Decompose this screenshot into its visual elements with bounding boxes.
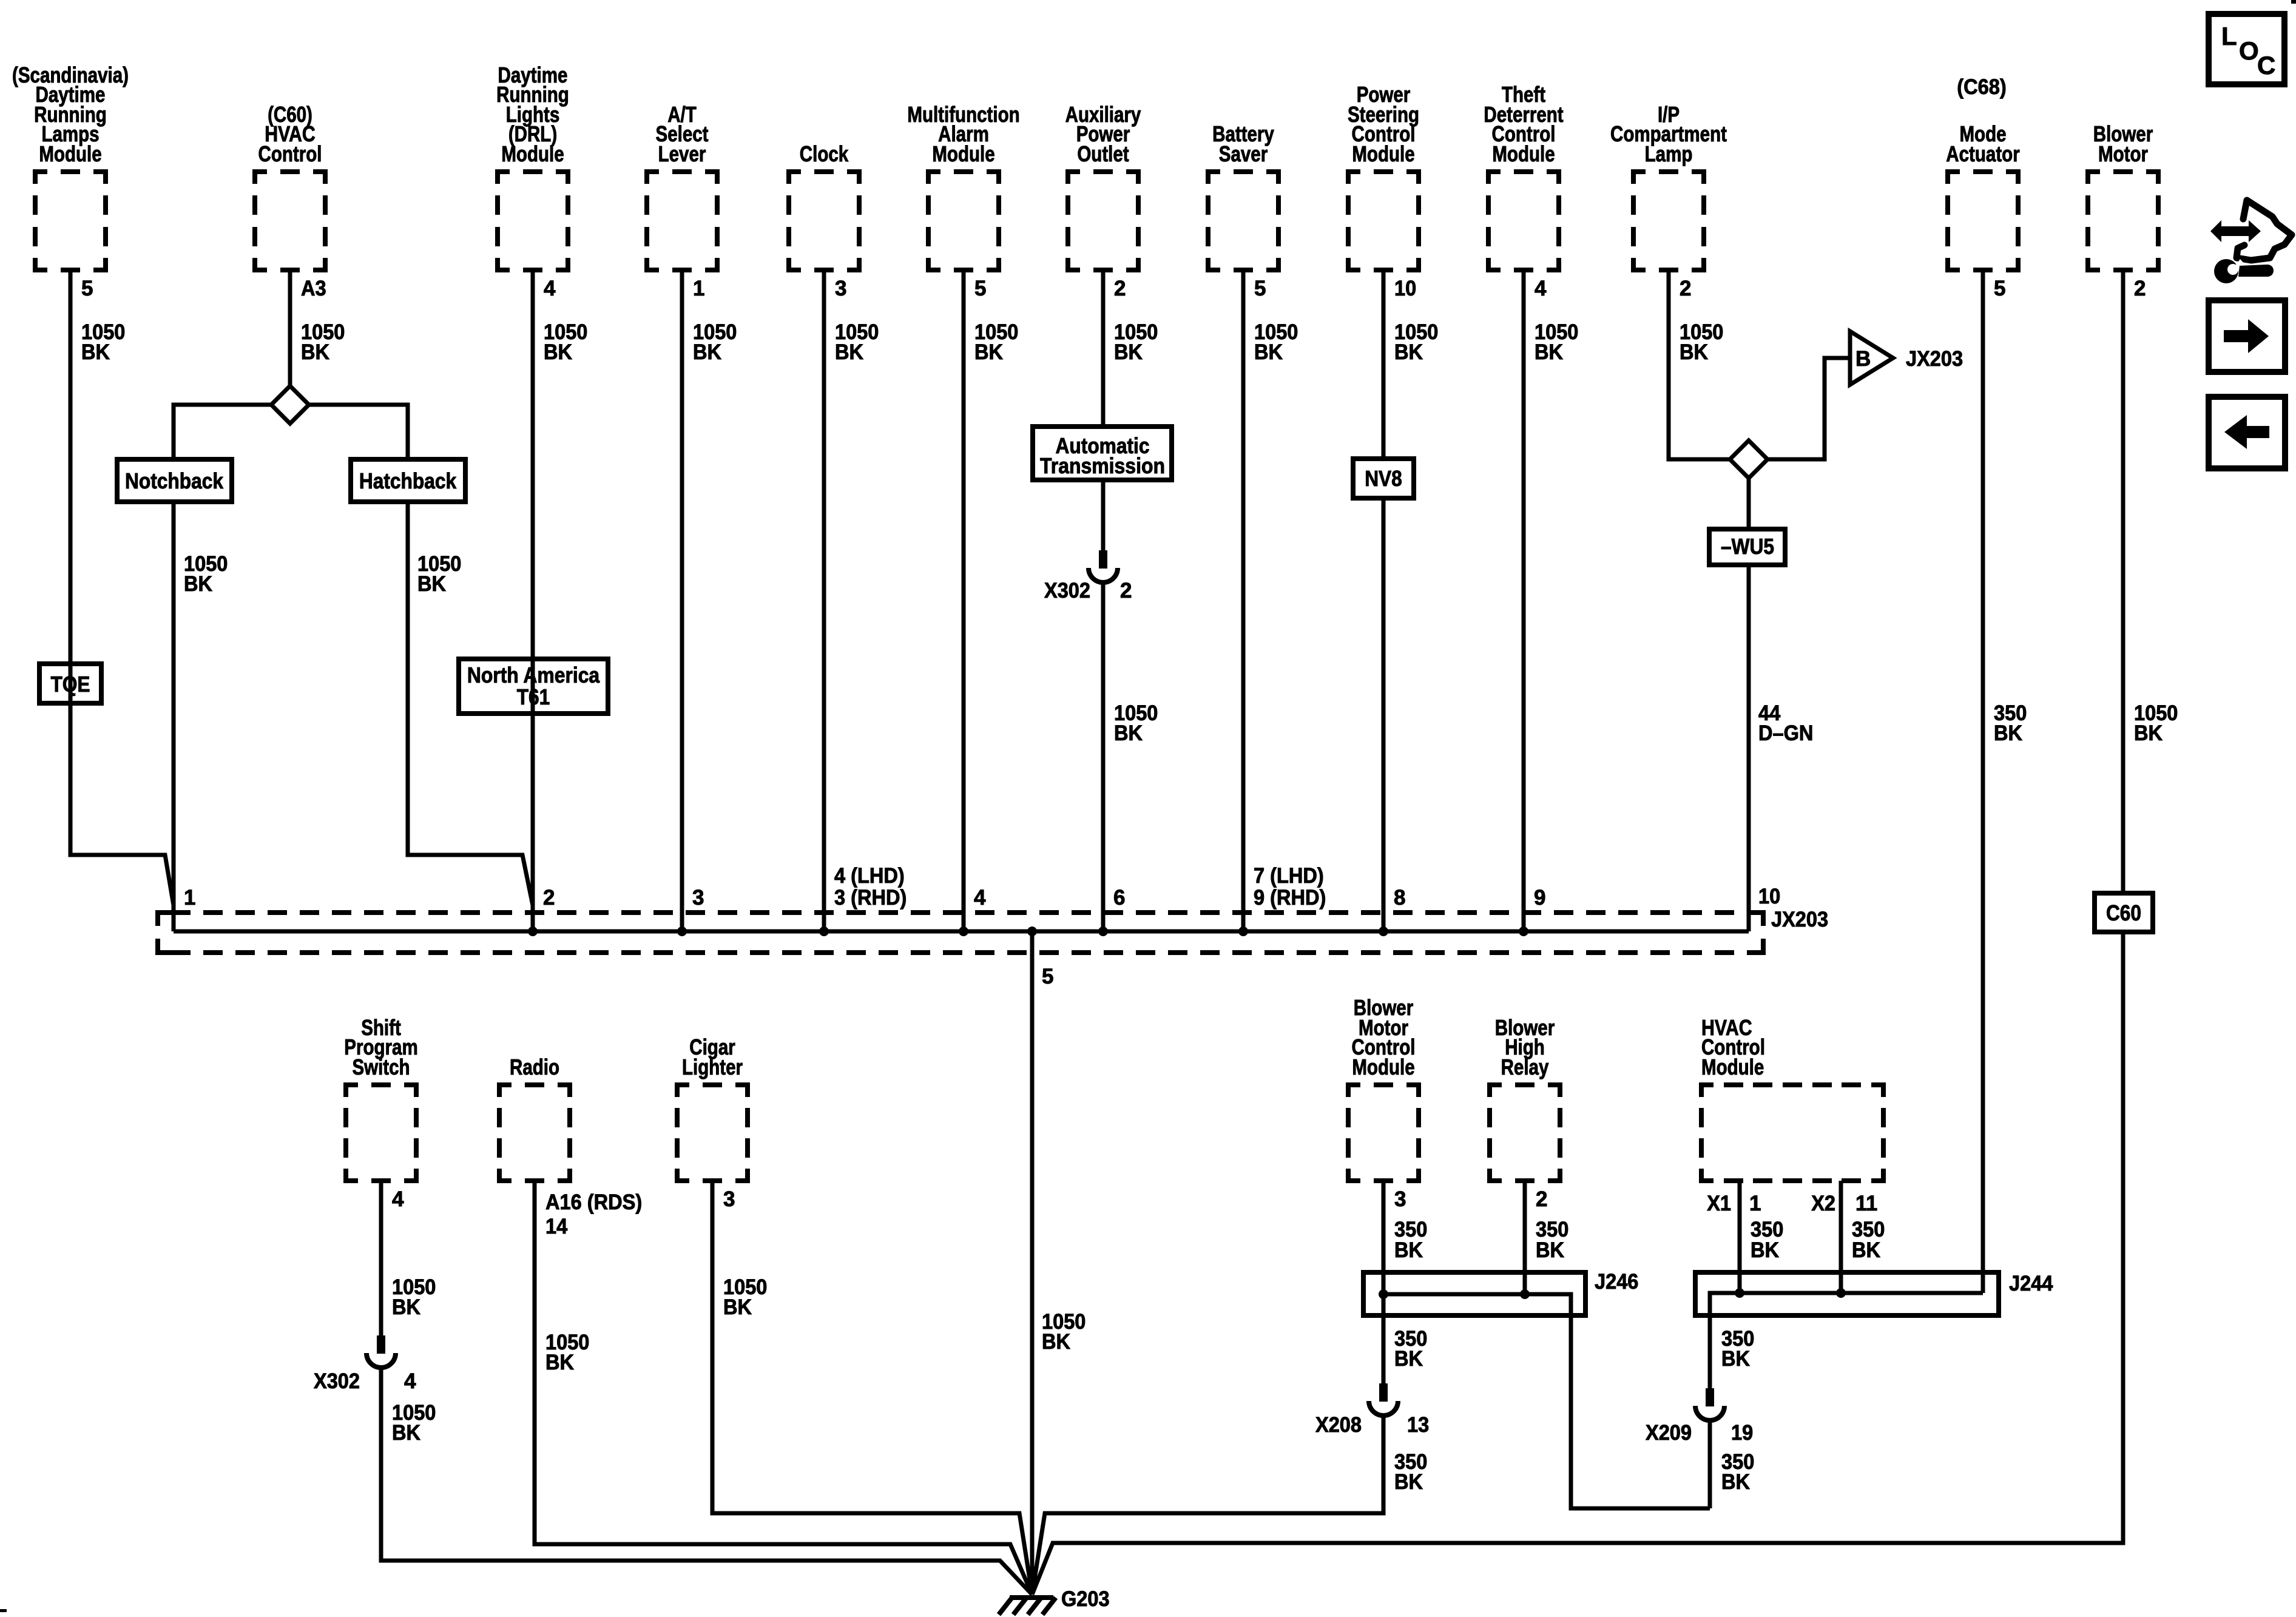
legend box L O C (2209, 14, 2284, 84)
svg-text:Switch: Switch (352, 1055, 410, 1079)
wire Shift Program Switch pin 4, 1050 BK (381, 1181, 436, 1335)
svg-text:O: O (2239, 36, 2259, 65)
svg-text:Module: Module (39, 141, 101, 166)
svg-text:JX203: JX203 (1771, 908, 1828, 931)
svg-text:BK: BK (1536, 1238, 1564, 1262)
module Blower High Relay (1490, 1015, 1560, 1181)
wire Blower High Relay pin 2, 350 BK (1525, 1181, 1568, 1294)
module Auxiliary Power Outlet (1065, 102, 1141, 270)
svg-text:X208: X208 (1315, 1413, 1362, 1437)
svg-text:4: 4 (392, 1187, 404, 1211)
node J244 X1 (1735, 1288, 1744, 1298)
svg-text:6: 6 (1113, 886, 1125, 910)
module Shift Program Switch (344, 1015, 417, 1181)
svg-text:BK: BK (1114, 340, 1143, 364)
svg-text:3: 3 (723, 1187, 735, 1211)
option box TQE (39, 664, 101, 703)
svg-text:Actuator: Actuator (1946, 141, 2019, 166)
svg-text:Relay: Relay (1501, 1055, 1549, 1079)
svg-text:Module: Module (1352, 141, 1414, 166)
svg-text:8: 8 (1394, 886, 1405, 910)
module Blower Motor Control Module (1348, 995, 1419, 1181)
svg-text:JX203: JX203 (1906, 347, 1963, 371)
wire Battery Saver pin 5, 1050 BK (1243, 270, 1298, 931)
option box -WU5 (1709, 529, 1785, 565)
wire I/P Compartment Lamp pin 2, 1050 BK (1669, 270, 1730, 459)
svg-text:2: 2 (543, 886, 555, 910)
svg-text:C: C (2257, 51, 2275, 79)
svg-text:BK: BK (1721, 1347, 1750, 1371)
node JX203 pin 7 (LHD) 9 (RHD) (1238, 864, 1326, 936)
svg-text:1: 1 (693, 277, 704, 300)
svg-text:BK: BK (1394, 1347, 1423, 1371)
node JX203 pin 8 (1379, 886, 1405, 936)
svg-text:BK: BK (2134, 721, 2163, 745)
svg-text:X1: X1 (1707, 1192, 1731, 1215)
inline connector X302 pin 4 (lower) (314, 1335, 416, 1393)
svg-text:1: 1 (184, 886, 195, 910)
svg-text:2: 2 (1114, 277, 1126, 300)
option box North America T61 (459, 659, 608, 714)
option box Notchback (117, 459, 232, 502)
svg-text:BK: BK (1394, 340, 1423, 364)
wire Multifunction Alarm Module pin 5, 1050 BK (964, 270, 1018, 931)
wire diamond to Notchback branch (174, 405, 271, 459)
node JX203 pin 4 (959, 886, 986, 936)
svg-text:T61: T61 (517, 684, 550, 709)
wire diamond to Hatchback branch (309, 405, 408, 459)
wire DRL Module pin 4, 1050 BK (533, 270, 587, 931)
svg-text:A3: A3 (301, 277, 326, 300)
wire JX203 pin 5 to ground G203 (1030, 931, 1035, 1595)
module Blower Motor (2088, 121, 2158, 270)
svg-text:BK: BK (1721, 1470, 1750, 1494)
svg-text:10: 10 (1394, 277, 1416, 300)
svg-text:X209: X209 (1646, 1421, 1692, 1445)
svg-text:Lever: Lever (658, 141, 706, 166)
svg-text:(C68): (C68) (1957, 75, 2006, 99)
svg-text:3: 3 (1394, 1187, 1406, 1211)
svg-text:Control: Control (258, 141, 322, 166)
svg-text:C60: C60 (2106, 900, 2141, 925)
svg-text:2: 2 (1536, 1187, 1547, 1211)
wire Power Steering Control Module pin 10, 1050 BK (1383, 270, 1438, 459)
svg-text:BK: BK (1852, 1238, 1880, 1262)
svg-text:BK: BK (1394, 1238, 1423, 1262)
module Clock (789, 141, 859, 270)
svg-text:Module: Module (1352, 1055, 1414, 1079)
svg-text:3: 3 (835, 277, 846, 300)
wire Mode Actuator pin 5 to J244, 350 BK (1983, 270, 2027, 1293)
option box Hatchback (351, 459, 465, 502)
wire J246 to X208, 350 BK (1383, 1294, 1427, 1383)
wire J246 internal bus (1383, 1294, 1710, 1508)
wire Auxiliary Power Outlet pin 2, 1050 BK (1103, 270, 1158, 427)
svg-text:9 (RHD): 9 (RHD) (1254, 886, 1326, 910)
svg-text:4: 4 (544, 277, 556, 300)
node J246 blower motor control (1379, 1289, 1388, 1299)
wire X302 to JX203 pin 6, 1050 BK (1103, 582, 1158, 931)
wire NV8 to JX203 pin 8 (1382, 498, 1386, 931)
svg-text:Transmission: Transmission (1040, 453, 1165, 478)
svg-text:1: 1 (1749, 1192, 1761, 1215)
module A/T Select Lever (647, 102, 717, 270)
svg-text:A16 (RDS): A16 (RDS) (545, 1190, 642, 1214)
icon arrow right (next page) (2209, 300, 2285, 372)
svg-text:BK: BK (184, 572, 212, 596)
svg-text:BK: BK (81, 340, 110, 364)
ground G203 (999, 1587, 1110, 1615)
svg-text:BK: BK (1535, 340, 1563, 364)
node JX203 pin 2 (528, 886, 555, 936)
svg-text:2: 2 (1120, 579, 1132, 603)
node JX203 pin 6 (1098, 886, 1125, 936)
wire diamond to connector B JX203 (1768, 358, 1850, 459)
svg-text:BK: BK (835, 340, 863, 364)
svg-text:3 (RHD): 3 (RHD) (834, 886, 907, 910)
wire Theft Deterrent Control Module pin 4, 1050 BK (1524, 270, 1578, 931)
svg-text:Radio: Radio (510, 1055, 559, 1079)
svg-text:Module: Module (1492, 141, 1555, 166)
svg-text:4: 4 (1535, 277, 1547, 300)
svg-text:10: 10 (1758, 885, 1780, 908)
svg-text:BK: BK (392, 1421, 420, 1445)
svg-text:3: 3 (692, 886, 704, 910)
wire J244 to X209 350 BK label (1721, 1327, 1754, 1371)
svg-text:Outlet: Outlet (1077, 141, 1129, 166)
svg-text:BK: BK (1042, 1330, 1070, 1354)
wire JX203 internal bus (174, 930, 1749, 934)
wire J244 internal bus (1710, 1293, 1983, 1388)
wire HVAC Control pin A3, 1050 BK (290, 270, 345, 386)
wire Hatchback to junction 2, 1050 BK (408, 502, 533, 905)
svg-text:J246: J246 (1595, 1270, 1638, 1294)
wire JX203 pin 5 mid label 1050 BK (1042, 1310, 1086, 1354)
node JX203 pin 4 (LHD) 3 (RHD) (819, 864, 907, 936)
icon adjust tool (hand with double arrow and wrench) (2210, 200, 2292, 283)
svg-text:Clock: Clock (800, 141, 849, 166)
svg-text:D–GN: D–GN (1758, 721, 1813, 745)
svg-text:X302: X302 (1044, 579, 1090, 603)
svg-text:4 (LHD): 4 (LHD) (834, 864, 905, 888)
module Daytime Running Lamps Module (Scandinavia) (12, 62, 129, 270)
module Battery Saver (1208, 121, 1278, 270)
svg-text:2: 2 (1680, 277, 1691, 300)
svg-text:2: 2 (2134, 277, 2146, 300)
svg-text:11: 11 (1855, 1192, 1877, 1215)
wire Cigar Lighter pin 3, 1050 BK (712, 1181, 1032, 1595)
svg-text:–WU5: –WU5 (1721, 534, 1774, 559)
splice diamond under HVAC Control (271, 386, 309, 424)
svg-text:BK: BK (1394, 1470, 1423, 1494)
icon arrow left (previous page) (2209, 397, 2285, 468)
module I/P Compartment Lamp (1610, 102, 1727, 270)
connector triangle B JX203 (1850, 331, 1963, 385)
svg-text:NV8: NV8 (1365, 466, 1402, 491)
wire HVAC Control Module X2 pin 11, 350 BK (1811, 1181, 1885, 1293)
module Multifunction Alarm Module (907, 102, 1019, 270)
wire Notchback to JX203 pin 1, 1050 BK (174, 502, 228, 931)
wire -WU5 to JX203 pin 10, 44 D-GN (1749, 565, 1813, 931)
svg-text:BK: BK (417, 572, 446, 596)
svg-text:Module: Module (501, 141, 564, 166)
svg-text:Lamp: Lamp (1645, 141, 1693, 166)
svg-text:5: 5 (974, 277, 986, 300)
svg-text:BK: BK (723, 1295, 752, 1319)
svg-text:North America: North America (467, 663, 600, 687)
wire C60 to ground, to G203 (1032, 932, 2123, 1595)
svg-text:5: 5 (1994, 277, 2005, 300)
wire X209 to J246 link, 350 BK (1710, 1420, 1754, 1508)
svg-text:Saver: Saver (1219, 141, 1268, 166)
node JX203 pin 5 to ground (1027, 927, 1053, 988)
connector C60 (2095, 893, 2153, 932)
wire HVAC Control Module X1 pin 1, 350 BK (1707, 1181, 1783, 1293)
svg-text:X2: X2 (1811, 1192, 1835, 1215)
node J246 blower high relay (1520, 1289, 1530, 1299)
wire X208 to ground, 350 BK (1032, 1416, 1427, 1595)
svg-text:Notchback: Notchback (125, 468, 224, 493)
splice diamond I/P lamp circuit (1730, 441, 1768, 478)
svg-text:4: 4 (974, 886, 986, 910)
svg-text:5: 5 (1042, 965, 1053, 988)
inline connector X209 pin 19 (1646, 1388, 1753, 1445)
connector bus JX203 dashed outline (158, 908, 1828, 953)
svg-text:BK: BK (1254, 340, 1283, 364)
svg-text:BK: BK (1751, 1238, 1779, 1262)
svg-text:13: 13 (1407, 1413, 1429, 1437)
svg-text:J244: J244 (2009, 1272, 2053, 1295)
connector bus J244 (1695, 1272, 2053, 1315)
svg-text:7 (LHD): 7 (LHD) (1254, 864, 1324, 888)
svg-text:BK: BK (974, 340, 1003, 364)
svg-text:BK: BK (545, 1351, 574, 1374)
svg-text:X302: X302 (314, 1369, 360, 1393)
option box NV8 (1353, 459, 1414, 498)
svg-text:BK: BK (1114, 721, 1143, 745)
module Theft Deterrent Control Module (1484, 82, 1563, 270)
svg-text:BK: BK (544, 340, 572, 364)
svg-text:4: 4 (404, 1369, 416, 1393)
wire A/T Select Lever pin 1, 1050 BK (682, 270, 737, 931)
inline connector X208 pin 13 (1315, 1383, 1429, 1437)
module Power Steering Control Module (1348, 82, 1419, 270)
wire Daytime Running Lamps Module pin 5, 1050 BK (70, 270, 174, 905)
wire X302 to ground, 1050 BK (381, 1368, 1032, 1595)
option box Automatic Transmission (1033, 427, 1172, 480)
svg-text:19: 19 (1731, 1421, 1753, 1445)
module HVAC Control (C60) (255, 102, 325, 270)
module Daytime Running Lights (DRL) Module (496, 62, 569, 270)
connector bus J246 (1363, 1270, 1638, 1315)
node J244 X2 (1836, 1288, 1846, 1298)
module Mode Actuator (C68) (1946, 75, 2019, 270)
svg-text:5: 5 (81, 277, 93, 300)
svg-text:BK: BK (392, 1295, 420, 1319)
svg-text:L: L (2221, 22, 2237, 50)
inline connector X302 pin 2 (upper) (1044, 480, 1132, 603)
wire Clock pin 3, 1050 BK (824, 270, 879, 931)
page margin tick bottom left (0, 1609, 7, 1612)
svg-text:Hatchback: Hatchback (359, 468, 457, 493)
svg-text:Module: Module (932, 141, 994, 166)
node JX203 pin 3 (677, 886, 704, 936)
svg-text:Module: Module (1701, 1055, 1764, 1079)
svg-text:Lighter: Lighter (682, 1055, 743, 1079)
module Radio (499, 1055, 570, 1181)
svg-text:B: B (1855, 347, 1871, 371)
node JX203 pin 9 (1519, 886, 1545, 936)
svg-text:BK: BK (301, 340, 329, 364)
wire Blower Motor Control Module pin 3, 350 BK (1383, 1181, 1427, 1294)
svg-text:TQE: TQE (50, 672, 90, 697)
page margin tick top right (2291, 0, 2296, 4)
svg-text:BK: BK (1680, 340, 1708, 364)
module HVAC Control Module (1701, 1015, 1883, 1181)
svg-text:14: 14 (545, 1215, 568, 1238)
module Cigar Lighter (677, 1035, 748, 1181)
svg-text:Motor: Motor (2098, 141, 2148, 166)
wire Blower Motor pin 2, 1050 BK (2123, 270, 2178, 893)
svg-text:BK: BK (693, 340, 721, 364)
svg-text:9: 9 (1534, 886, 1545, 910)
wire Radio pin A16 (RDS) / 14, 1050 BK (535, 1181, 1032, 1595)
svg-text:5: 5 (1254, 277, 1266, 300)
wire diamond down to -WU5 (1747, 478, 1751, 529)
svg-text:G203: G203 (1061, 1587, 1110, 1611)
svg-text:BK: BK (1994, 721, 2022, 745)
